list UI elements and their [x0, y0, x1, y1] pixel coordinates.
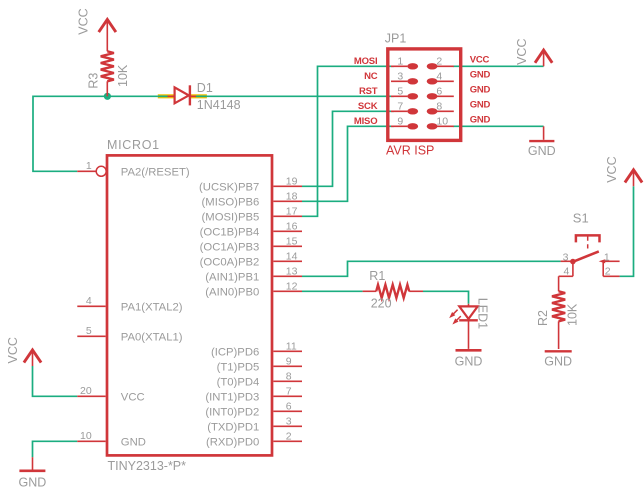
svg-text:R1: R1 [369, 269, 385, 283]
svg-text:7: 7 [397, 101, 403, 113]
svg-text:8: 8 [286, 370, 292, 382]
svg-text:RST: RST [359, 86, 378, 97]
svg-text:(TXD)PD1: (TXD)PD1 [207, 422, 259, 434]
svg-text:(AIN0)PB0: (AIN0)PB0 [205, 287, 259, 299]
svg-text:(INT0)PD2: (INT0)PD2 [205, 407, 259, 419]
svg-text:NC: NC [364, 71, 378, 82]
svg-text:VCC: VCC [121, 392, 145, 404]
svg-text:2: 2 [605, 265, 611, 277]
svg-text:13: 13 [286, 265, 298, 277]
svg-text:17: 17 [286, 205, 298, 217]
svg-text:220: 220 [371, 297, 392, 311]
svg-text:10: 10 [80, 430, 92, 442]
svg-text:VCC: VCC [515, 38, 529, 64]
svg-text:10: 10 [436, 116, 448, 128]
svg-text:19: 19 [286, 175, 298, 187]
svg-text:MICRO1: MICRO1 [107, 138, 160, 152]
svg-text:GND: GND [470, 100, 491, 111]
svg-text:R2: R2 [536, 310, 550, 326]
svg-text:VCC: VCC [605, 156, 619, 182]
svg-text:3: 3 [563, 251, 569, 263]
svg-text:GND: GND [544, 354, 572, 368]
svg-text:SCK: SCK [358, 101, 378, 112]
svg-text:(ICP)PD6: (ICP)PD6 [211, 347, 259, 359]
svg-text:(AIN1)PB1: (AIN1)PB1 [205, 272, 259, 284]
svg-text:6: 6 [436, 86, 442, 98]
svg-text:VCC: VCC [470, 55, 490, 66]
svg-text:LED1: LED1 [476, 298, 490, 329]
svg-text:GND: GND [470, 85, 491, 96]
svg-text:GND: GND [470, 70, 491, 81]
svg-text:12: 12 [286, 280, 298, 292]
svg-text:R3: R3 [87, 73, 101, 89]
svg-text:14: 14 [286, 250, 298, 262]
svg-text:1: 1 [604, 251, 610, 263]
svg-text:2: 2 [436, 56, 442, 68]
svg-text:(OC1A)PB3: (OC1A)PB3 [200, 242, 260, 254]
svg-text:(OC1B)PB4: (OC1B)PB4 [200, 227, 260, 239]
svg-text:GND: GND [470, 115, 491, 126]
svg-text:9: 9 [397, 116, 403, 128]
svg-text:S1: S1 [573, 210, 589, 225]
svg-text:MISO: MISO [354, 116, 377, 127]
svg-text:(OC0A)PB2: (OC0A)PB2 [200, 257, 260, 269]
svg-text:PA0(XTAL1): PA0(XTAL1) [121, 332, 183, 344]
svg-text:10K: 10K [566, 303, 580, 326]
svg-text:TINY2313-*P*: TINY2313-*P* [108, 459, 187, 473]
svg-text:GND: GND [121, 437, 146, 449]
svg-text:3: 3 [397, 71, 403, 83]
svg-text:11: 11 [286, 340, 297, 352]
svg-text:20: 20 [80, 385, 92, 397]
svg-text:4: 4 [86, 295, 92, 307]
svg-text:(UCSK)PB7: (UCSK)PB7 [199, 182, 259, 194]
svg-text:1: 1 [86, 160, 92, 172]
svg-text:AVR ISP: AVR ISP [386, 144, 434, 158]
svg-text:2: 2 [286, 430, 292, 442]
svg-text:(T1)PD5: (T1)PD5 [217, 362, 260, 374]
svg-text:D1: D1 [197, 81, 213, 95]
svg-text:6: 6 [286, 400, 292, 412]
svg-text:(T0)PD4: (T0)PD4 [217, 377, 260, 389]
svg-text:(RXD)PD0: (RXD)PD0 [206, 437, 259, 449]
svg-text:VCC: VCC [6, 337, 20, 363]
svg-text:GND: GND [528, 144, 556, 158]
svg-text:4: 4 [563, 265, 569, 277]
svg-text:(MOSI)PB5: (MOSI)PB5 [202, 212, 260, 224]
svg-text:1: 1 [397, 56, 403, 68]
svg-text:4: 4 [436, 71, 442, 83]
svg-text:18: 18 [286, 190, 298, 202]
svg-text:3: 3 [286, 415, 292, 427]
svg-text:16: 16 [286, 220, 298, 232]
svg-text:(MISO)PB6: (MISO)PB6 [202, 197, 260, 209]
svg-text:PA1(XTAL2): PA1(XTAL2) [121, 302, 183, 314]
svg-text:5: 5 [86, 325, 92, 337]
svg-text:5: 5 [397, 86, 403, 98]
svg-text:10K: 10K [116, 64, 130, 87]
svg-text:9: 9 [286, 355, 292, 367]
svg-text:VCC: VCC [77, 8, 91, 34]
svg-text:1N4148: 1N4148 [197, 98, 241, 112]
svg-text:7: 7 [286, 385, 292, 397]
svg-text:15: 15 [286, 235, 298, 247]
svg-text:MOSI: MOSI [354, 56, 377, 67]
svg-text:JP1: JP1 [385, 31, 407, 45]
svg-text:GND: GND [455, 354, 483, 368]
svg-text:(INT1)PD3: (INT1)PD3 [205, 392, 259, 404]
svg-text:8: 8 [436, 101, 442, 113]
svg-text:GND: GND [19, 475, 47, 489]
svg-text:PA2(/RESET): PA2(/RESET) [121, 167, 190, 179]
